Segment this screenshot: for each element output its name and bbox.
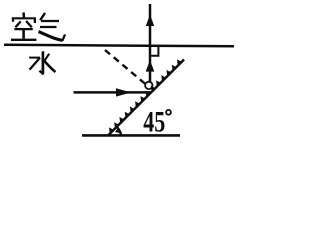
svg-text:45: 45 [143, 106, 165, 139]
